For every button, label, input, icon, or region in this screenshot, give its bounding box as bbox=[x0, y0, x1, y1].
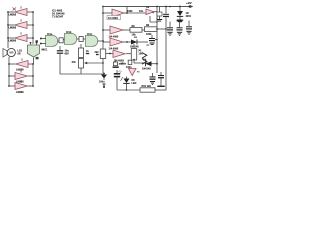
svg-text:LM386: LM386 bbox=[9, 13, 17, 16]
svg-text:LM386: LM386 bbox=[16, 91, 24, 94]
potentiometer P1 bbox=[72, 59, 104, 75]
resistor R5 bbox=[79, 44, 90, 58]
svg-text:LM386: LM386 bbox=[9, 39, 17, 42]
capacitor C5 to ground under U4 bbox=[113, 60, 127, 68]
resistor R7 bbox=[79, 37, 86, 42]
wire bottom right bus bbox=[32, 58, 35, 87]
capacitor C9 to ground bbox=[167, 22, 173, 36]
wire mid bus bbox=[102, 7, 104, 47]
wire P2 to D3 bbox=[134, 62, 148, 64]
small resistor box mid bbox=[126, 60, 132, 69]
diode D3 bbox=[142, 58, 158, 70]
wire stub A1 out bbox=[27, 11, 33, 13]
op-amp B2 bbox=[15, 70, 28, 83]
resistor R8 bbox=[130, 25, 145, 37]
node junctions left bus bbox=[7, 11, 34, 39]
NAND gate IC1b bbox=[65, 31, 80, 45]
parts list text block bbox=[52, 10, 65, 19]
op-amp U1 bbox=[103, 7, 146, 20]
microphone capsule X1 bbox=[28, 42, 49, 57]
svg-text:63V: 63V bbox=[65, 53, 70, 56]
resistor R6 bbox=[58, 38, 66, 43]
wire top-left cross mark bbox=[13, 8, 17, 11]
wire stub A2 in bbox=[8, 24, 14, 26]
op-amp A1 bbox=[9, 6, 28, 16]
op-amp U5 small bbox=[146, 6, 157, 15]
loudspeaker LS1 bbox=[3, 48, 23, 57]
capacitor C7 to ground bbox=[147, 35, 158, 47]
resistor R9 bbox=[145, 24, 167, 36]
diode D2 bbox=[177, 7, 192, 23]
svg-text:4001: 4001 bbox=[186, 15, 192, 18]
svg-text:LED: LED bbox=[132, 82, 137, 85]
capacitor C14 to ground bottom right bbox=[150, 73, 156, 85]
wire vertical bus B with series cap bbox=[163, 7, 169, 91]
op-amp B1 bbox=[16, 58, 29, 71]
diode D1 bbox=[130, 37, 148, 48]
transistor T1 pink bbox=[129, 69, 141, 76]
wire bottom-left bus bbox=[9, 57, 38, 86]
svg-text:2k2: 2k2 bbox=[95, 51, 100, 54]
output arrows bbox=[142, 53, 147, 65]
svg-text:LM386: LM386 bbox=[16, 69, 24, 72]
op-amp B3 bbox=[15, 80, 28, 94]
+9V supply label bbox=[186, 1, 193, 8]
wire vertical bus A bbox=[156, 7, 158, 74]
capacitor C15 to ground bottom right bbox=[157, 72, 164, 87]
op-amp A3 bbox=[9, 32, 28, 42]
op-amp A2 bbox=[9, 19, 28, 29]
wire stub A3 in bbox=[8, 37, 14, 39]
wire C1 to bottom run bbox=[60, 54, 104, 74]
svg-text:MIC1: MIC1 bbox=[42, 49, 49, 52]
svg-text:100k: 100k bbox=[127, 10, 133, 13]
capacitor C12 bbox=[99, 73, 107, 88]
svg-text:IC1c: IC1c bbox=[87, 33, 93, 36]
op-amp U4 bbox=[106, 50, 131, 66]
svg-text:+9V: +9V bbox=[186, 1, 193, 5]
NAND gate IC1a bbox=[36, 33, 58, 47]
potentiometer P2 bbox=[131, 44, 143, 63]
svg-text:1N4148: 1N4148 bbox=[142, 67, 151, 70]
wire loop U5 bbox=[150, 12, 157, 22]
wire stub A2 out bbox=[27, 24, 33, 26]
node junctions mid bus bbox=[102, 6, 104, 42]
svg-text:T1 BC547: T1 BC547 bbox=[52, 16, 64, 19]
resistor R10 vertical bbox=[95, 46, 106, 59]
R10 bottom lead bbox=[102, 59, 104, 74]
node junctions bottom-left bbox=[8, 63, 34, 87]
capacitor C13 bbox=[114, 70, 122, 90]
capacitor C8 electrolytic bbox=[153, 7, 163, 22]
capacitor C1 bbox=[57, 46, 69, 56]
wire right bus top-left section bbox=[32, 12, 34, 44]
wire stub A1 in bbox=[8, 11, 14, 13]
svg-text:1/4 4093: 1/4 4093 bbox=[108, 17, 118, 20]
svg-text:10k: 10k bbox=[132, 34, 137, 37]
op-amp U3 bbox=[103, 38, 131, 51]
svg-text:R10 1k5: R10 1k5 bbox=[142, 85, 152, 88]
svg-text:IC1a: IC1a bbox=[47, 33, 53, 36]
wire left input bus bbox=[7, 12, 9, 48]
svg-text:100k: 100k bbox=[146, 33, 152, 36]
op-amp U2 bbox=[103, 26, 130, 39]
resistor R11 bbox=[117, 85, 166, 92]
capacitor C10 to ground bbox=[177, 20, 183, 35]
LED D5 bbox=[120, 77, 136, 91]
wire stub A3 out bbox=[27, 37, 33, 39]
capacitor C11 to ground bbox=[186, 21, 192, 35]
power rail top bbox=[103, 6, 190, 8]
svg-text:LM386: LM386 bbox=[9, 26, 17, 29]
node junctions rail bbox=[156, 6, 190, 8]
svg-text:47k: 47k bbox=[72, 61, 77, 64]
NAND gate IC1c bbox=[86, 33, 104, 47]
svg-text:10n: 10n bbox=[139, 10, 144, 13]
svg-text:IC1b: IC1b bbox=[66, 31, 72, 34]
svg-text:8R: 8R bbox=[18, 53, 21, 56]
svg-text:100u: 100u bbox=[99, 81, 105, 84]
